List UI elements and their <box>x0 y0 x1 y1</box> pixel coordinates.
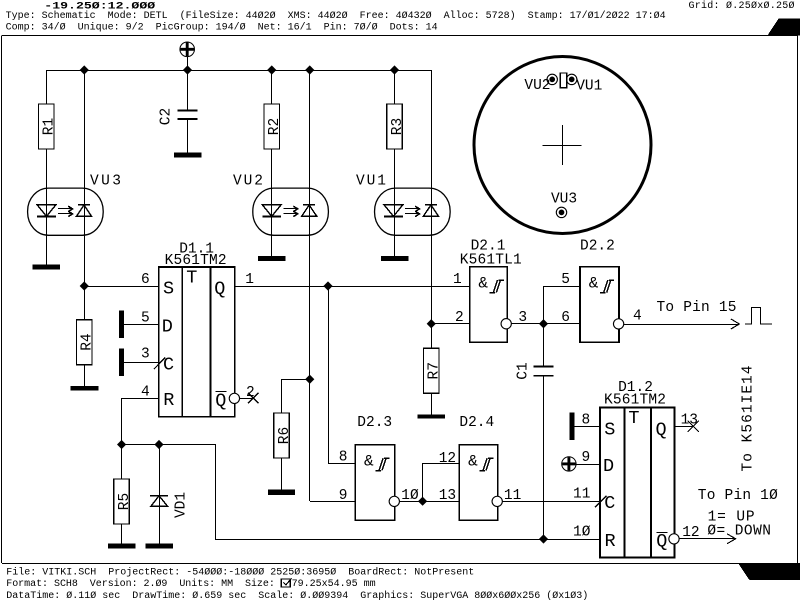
svg-text:D2.4: D2.4 <box>459 415 494 431</box>
svg-text:Q: Q <box>656 420 667 441</box>
ground (VU3 led) <box>33 264 61 269</box>
svg-text:79.25x54.95 mm: 79.25x54.95 mm <box>292 579 376 590</box>
svg-text:4: 4 <box>141 384 150 400</box>
wire: Q1 output net to D2.1 pin1 <box>235 286 470 288</box>
svg-text:R2: R2 <box>267 118 283 135</box>
svg-text:&: & <box>364 452 374 470</box>
checkbox <box>281 579 290 587</box>
svg-text:K561TL1: K561TL1 <box>460 252 522 268</box>
svg-text:VU1: VU1 <box>576 78 602 94</box>
wire: branch to R6 <box>282 380 310 414</box>
svg-text:1: 1 <box>453 272 462 288</box>
flip-flop D1.2 K561TM2 <box>600 408 674 558</box>
resistor R2 <box>264 104 280 149</box>
gate D2.2 <box>580 267 619 343</box>
ground (VU1 led) <box>381 256 409 261</box>
svg-text:File: VITKI.SCH ProjectRect:: File: VITKI.SCH ProjectRect: -54ØØØ:-18Ø… <box>6 567 474 579</box>
capacitor C2 <box>178 110 198 112</box>
svg-text:11: 11 <box>504 488 521 504</box>
svg-text:3: 3 <box>518 310 527 326</box>
wire: R7 to ground <box>431 392 433 415</box>
svg-text:To Pin 1Ø: To Pin 1Ø <box>698 488 778 504</box>
schematic sheet border <box>2 35 798 37</box>
wire: branch to D2.4 pin12 <box>423 464 460 502</box>
svg-text:K561TM2: K561TM2 <box>165 253 227 269</box>
wire: D1.1 pin5 <box>124 324 159 326</box>
ground (VD1) <box>145 543 173 548</box>
wire: D1.2 D pin9 <box>576 464 600 466</box>
wire: D1.2 S pin8 <box>574 426 600 428</box>
wire: D1.2 Q stub pin13 <box>674 426 693 428</box>
optocoupler VU1 <box>375 188 451 235</box>
clock slash D1.2 <box>595 496 606 508</box>
svg-text:DataTime: Ø.11Ø sec DrawTime:: DataTime: Ø.11Ø sec DrawTime: Ø.659 sec … <box>6 590 588 600</box>
svg-text:K561TM2: K561TM2 <box>604 392 666 408</box>
svg-text:8: 8 <box>339 450 348 466</box>
svg-text:13: 13 <box>439 488 456 504</box>
nc bar D1.1 pin5 <box>119 311 124 338</box>
wire: VU3 photodiode column <box>84 70 86 286</box>
svg-text:VU3: VU3 <box>551 191 577 207</box>
wire: R4 column <box>84 286 86 320</box>
svg-text:T: T <box>186 268 197 289</box>
svg-text:R6: R6 <box>277 427 293 444</box>
wire: R3 column <box>394 70 396 104</box>
wire: R2 column <box>271 70 273 104</box>
svg-text:2: 2 <box>455 310 464 326</box>
resistor R6 <box>274 413 290 458</box>
svg-text:Ø= DOWN: Ø= DOWN <box>707 524 771 540</box>
svg-text:D: D <box>603 456 614 477</box>
svg-text:To Pin 15: To Pin 15 <box>657 300 737 316</box>
D2.4 output circle <box>492 496 502 506</box>
svg-text:R: R <box>605 531 616 552</box>
wire: D2.2 output to pin 15 arrow <box>624 324 740 326</box>
wire: D2.3 pin9 <box>310 501 356 503</box>
svg-text:1Ø: 1Ø <box>401 488 419 504</box>
svg-text:Type: Schematic Mode: DETL (: Type: Schematic Mode: DETL (FileSize: 44… <box>6 10 666 22</box>
status: cursor coordinates <box>44 0 155 12</box>
svg-text:R4: R4 <box>80 333 96 350</box>
diode VD1 <box>151 496 168 507</box>
svg-text:8: 8 <box>582 413 591 429</box>
svg-text:Q: Q <box>656 531 667 552</box>
capacitor C1 <box>533 365 553 367</box>
nc bar D1.1 pin3 <box>119 349 124 376</box>
svg-text:VU1: VU1 <box>356 173 386 189</box>
nc cross D1.2 pin13 <box>688 421 699 432</box>
nc bar D1.2 pin8 <box>569 413 574 440</box>
svg-text:VD1: VD1 <box>174 492 190 518</box>
gate D2.3 <box>355 445 394 521</box>
svg-text:&: & <box>468 452 478 470</box>
resistor R7 <box>424 348 440 393</box>
svg-text:3: 3 <box>141 347 150 363</box>
pad VU1 <box>567 74 577 84</box>
resistor R1 <box>39 104 55 149</box>
center cross <box>562 125 564 165</box>
wire: D2.2 pin5 <box>544 287 581 324</box>
wire: D2.4 output node 11 to D1.2 C <box>502 501 600 503</box>
svg-text:R5: R5 <box>117 493 133 510</box>
optocoupler VU3 <box>28 188 104 235</box>
ground (R4) <box>70 386 98 390</box>
nc cross D1.1 pin2 <box>248 393 259 404</box>
wire: R1 column <box>46 70 48 104</box>
svg-text:13: 13 <box>681 413 698 429</box>
wire: R5 column <box>121 445 123 480</box>
wire: D1.1 pin4 reset <box>122 399 159 445</box>
gate D2.1 K561TL1 <box>470 267 508 343</box>
bottom-right corner marker <box>739 564 800 580</box>
resistor R5 <box>114 479 130 524</box>
svg-text:9: 9 <box>339 488 348 504</box>
svg-text:VU2: VU2 <box>524 78 550 94</box>
svg-text:6: 6 <box>561 310 570 326</box>
svg-text:&: & <box>589 274 599 292</box>
wire: reset rail to D1.2 <box>122 445 601 540</box>
svg-text:1Ø: 1Ø <box>573 525 591 541</box>
resistor R3 <box>387 104 403 149</box>
resistor R4 <box>77 320 93 365</box>
svg-text:&: & <box>478 274 488 292</box>
svg-text:9: 9 <box>582 450 591 466</box>
ground (R5) <box>108 543 136 548</box>
svg-text:11: 11 <box>573 487 590 503</box>
wire: R6 to ground <box>281 459 283 490</box>
D2.3 output circle <box>389 496 399 506</box>
wire: C2 column <box>187 70 189 110</box>
svg-text:Comp: 34/Ø Unique: 9/2 PicGr: Comp: 34/Ø Unique: 9/2 PicGroup: 194/Ø N… <box>6 21 438 33</box>
svg-text:D2.3: D2.3 <box>357 415 392 431</box>
ground (R7) <box>418 415 446 419</box>
svg-text:D2.2: D2.2 <box>580 238 615 254</box>
svg-text:R3: R3 <box>390 118 406 135</box>
D2.1 output circle <box>501 319 511 329</box>
svg-text:Grid: Ø.25ØxØ.25Ø: Grid: Ø.25ØxØ.25Ø <box>689 0 795 12</box>
wire: D2.2 pin6 <box>544 323 581 325</box>
wire: D1.2 Q-bar output pin12 arrow <box>679 538 735 540</box>
D1.2 output inversion circle pin12 <box>669 534 679 544</box>
wire: D1.1 pin3 <box>124 362 159 364</box>
pulse waveform symbol <box>745 308 772 325</box>
svg-text:VU3: VU3 <box>90 173 121 189</box>
ground (VU2 led) <box>258 256 286 261</box>
svg-text:1: 1 <box>245 272 254 288</box>
gate D2.4 <box>459 445 497 521</box>
pad VU2 <box>547 74 557 84</box>
svg-text:To K561IE14: To K561IE14 <box>741 366 757 472</box>
ground (R6) <box>268 490 295 495</box>
wire: VU2 photodiode column <box>309 70 311 501</box>
svg-text:12: 12 <box>682 525 699 541</box>
svg-text:T: T <box>628 408 639 429</box>
svg-text:12: 12 <box>439 451 456 467</box>
wire: D2.1 pin2 <box>431 323 469 325</box>
svg-text:R7: R7 <box>427 362 443 379</box>
optocoupler VU2 <box>253 188 329 235</box>
svg-text:2: 2 <box>246 385 255 401</box>
svg-text:R1: R1 <box>42 118 58 135</box>
ground (C2) <box>174 153 202 158</box>
power cross top <box>180 42 195 57</box>
svg-text:5: 5 <box>561 272 570 288</box>
top-right corner marker <box>769 19 800 35</box>
power cross D1.2 pin9 <box>562 457 576 471</box>
svg-text:6: 6 <box>141 272 150 288</box>
flip-flop D1.1 K561TM2 <box>159 267 235 417</box>
svg-text:C1: C1 <box>516 362 532 379</box>
svg-text:S: S <box>604 420 615 441</box>
wire: VD1 column <box>159 445 161 544</box>
svg-text:D: D <box>162 317 173 338</box>
svg-text:S: S <box>163 279 174 300</box>
wire: top supply bus <box>46 70 431 72</box>
clock slash D1.1 <box>154 358 165 370</box>
svg-text:R: R <box>163 390 174 411</box>
pad index mark <box>560 73 566 88</box>
wire: D1.1 Q-bar stub <box>240 398 254 400</box>
junction dots <box>80 65 89 74</box>
svg-text:Q: Q <box>214 279 225 300</box>
wire: node S (pin6 D1.1) <box>84 286 159 288</box>
D2.2 output circle <box>613 319 623 329</box>
svg-text:4: 4 <box>633 309 642 325</box>
wire: D2.3 output node 10 <box>399 501 459 503</box>
svg-text:Format: SCH8 Version: 2.Ø9 U: Format: SCH8 Version: 2.Ø9 Units: MM Siz… <box>6 578 281 590</box>
wire: C1 column <box>543 324 545 366</box>
svg-text:5: 5 <box>141 311 150 327</box>
D1.1 output inversion circle pin2 <box>229 393 239 403</box>
svg-text:Q: Q <box>215 390 226 411</box>
wire: VU1 photodiode / R7 column <box>431 70 433 348</box>
svg-text:C2: C2 <box>159 108 175 125</box>
component footprint circle <box>474 57 651 234</box>
wire: plus stub <box>187 56 189 70</box>
wire: D2.1 output to node 3 <box>511 323 543 325</box>
wire: branch to D2.3 pin8 <box>329 287 356 464</box>
pad VU3 <box>556 207 566 217</box>
svg-text:VU2: VU2 <box>233 173 263 189</box>
